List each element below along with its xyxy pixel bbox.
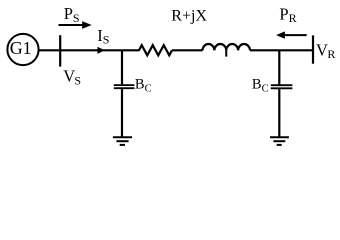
arrow IS current arrowhead bbox=[98, 47, 105, 54]
generator G1 bbox=[7, 34, 38, 65]
node VR receiving bus bbox=[312, 35, 314, 63]
inductor X bbox=[203, 44, 251, 50]
svg-text:G1: G1 bbox=[10, 38, 32, 58]
wire right capacitor to ground bbox=[278, 89, 280, 136]
ground left bbox=[113, 136, 132, 138]
wire G1 to sending bus bbox=[39, 49, 59, 51]
arrow PR bbox=[284, 34, 307, 36]
ground right bbox=[270, 136, 289, 138]
wire sending bus to resistor bbox=[60, 49, 139, 51]
resistor R bbox=[139, 45, 172, 55]
svg-text:R+jX: R+jX bbox=[171, 7, 207, 24]
arrow PS bbox=[59, 24, 84, 26]
capacitor BC left bbox=[114, 84, 135, 86]
capacitor BC right bbox=[271, 84, 293, 86]
wire inductor to receiving bus bbox=[250, 49, 314, 51]
node VS sending bus bbox=[59, 35, 61, 66]
wire resistor to inductor bbox=[172, 49, 203, 51]
wire right shunt branch bbox=[278, 50, 280, 84]
wire left capacitor to ground bbox=[121, 89, 123, 137]
wire left shunt branch bbox=[121, 50, 123, 84]
